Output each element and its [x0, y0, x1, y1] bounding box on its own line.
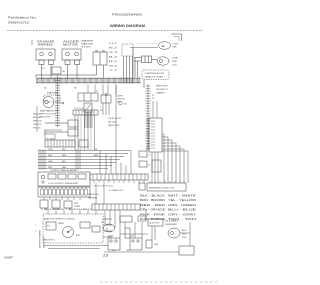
wire left border stub: [31, 40, 33, 45]
water valve motor: [168, 228, 180, 238]
svg-text:115V: 115V: [172, 65, 177, 67]
condenser fan motor: [159, 42, 171, 50]
dispenser switch 2: [130, 238, 142, 250]
svg-text:COND: COND: [173, 44, 179, 46]
svg-text:BLK - BLACK: BLK - BLACK: [140, 195, 166, 198]
light switch box: [78, 93, 98, 101]
svg-text:BLU - BLUE: BLU - BLUE: [168, 209, 197, 212]
small component boxes: [40, 200, 81, 210]
notes text: [88, 194, 99, 200]
fast freeze label: [44, 208, 93, 211]
svg-text:J2: J2: [152, 95, 155, 97]
svg-text:WHT-130: WHT-130: [33, 121, 42, 123]
svg-text:YEL-116: YEL-116: [33, 128, 42, 130]
water valve box: [36, 50, 107, 77]
wire horizontal bus hatched: [36, 79, 141, 83]
wires from bus to switches: [88, 85, 116, 96]
auger motor connector J2: [62, 41, 81, 80]
ice dispenser motor: [104, 224, 115, 232]
wire top-right corner inner: [174, 37, 180, 42]
svg-text:SEE NOTE 4: SEE NOTE 4: [88, 194, 99, 196]
svg-text:EVAP FAN MOTOR: EVAP FAN MOTOR: [40, 110, 59, 113]
svg-text:SEE NOTE 2: SEE NOTE 2: [108, 125, 121, 127]
svg-text:TIMER: TIMER: [58, 223, 64, 225]
svg-text:CABINET: CABINET: [156, 92, 165, 95]
small box above heater: [138, 216, 146, 221]
svg-text:WHT: WHT: [126, 250, 131, 252]
heater box: [148, 219, 178, 226]
svg-text:1 2 3 4 5 6 7 8 9 10 11 12: 1 2 3 4 5 6 7 8 9 10 11 12: [92, 186, 113, 188]
harness strip: [73, 110, 98, 115]
svg-text:GRY - GRAY: GRY - GRAY: [168, 213, 197, 216]
svg-text:WIRING DIAGRAM: WIRING DIAGRAM: [110, 24, 145, 28]
labels right of switches: [117, 96, 125, 104]
defrost heater vertical label: [35, 225, 46, 248]
svg-text:115V: 115V: [81, 47, 92, 49]
svg-text:1 2 3 4 5 6 7: 1 2 3 4 5 6 7: [74, 108, 85, 110]
svg-text:N: N: [149, 165, 151, 167]
svg-text:ORN • BLK 115V: ORN • BLK 115V: [40, 114, 56, 116]
svg-text:2B: 2B: [63, 71, 66, 73]
right column small box 2: [139, 161, 151, 167]
svg-text:ICE RT DOOR: ICE RT DOOR: [108, 118, 122, 120]
svg-text:TAN: TAN: [62, 166, 66, 169]
svg-text:COMPRESSOR RUN: COMPRESSOR RUN: [145, 73, 165, 75]
svg-text:N-2: N-2: [109, 48, 119, 50]
wires descending from harness strip: [75, 115, 95, 150]
svg-text:BLK-140: BLK-140: [33, 117, 42, 119]
svg-text:DEF: DEF: [74, 203, 79, 205]
main board connector P1: [146, 118, 162, 152]
svg-text:ICE: ICE: [101, 222, 105, 224]
svg-text:AUG: AUG: [182, 229, 187, 232]
wires under door switch: [103, 103, 109, 115]
svg-text:R-5: R-5: [109, 61, 119, 63]
right column small box 1: [139, 151, 151, 157]
svg-text:1C: 1C: [96, 91, 99, 93]
svg-text:PNK: PNK: [48, 167, 53, 169]
svg-text:M: M: [106, 229, 108, 231]
wire top-right corner: [172, 34, 182, 41]
junction box on bundle: [52, 67, 66, 74]
svg-text:DEFROST HEATER: DEFROST HEATER: [39, 229, 42, 248]
svg-text:2: 2: [35, 231, 36, 233]
svg-text:ORN: ORN: [48, 149, 53, 151]
svg-text:ICE MAKER: ICE MAKER: [37, 41, 54, 44]
header rule: [7, 30, 203, 32]
svg-text:TSTAT: TSTAT: [74, 205, 81, 208]
svg-text:SEE NOTE 5: SEE NOTE 5: [44, 235, 46, 248]
svg-text:. .. .: . .. .: [14, 35, 18, 37]
dispenser board small box: [139, 183, 145, 190]
dashed harness connector: [122, 44, 133, 84]
svg-text:GA97: GA97: [4, 256, 14, 260]
svg-text:WATER: WATER: [81, 40, 94, 43]
hatch under switch: [85, 112, 93, 128]
svg-text:Y-7: Y-7: [109, 70, 119, 72]
svg-text:CAPACITOR 10MFD: CAPACITOR 10MFD: [145, 76, 164, 79]
svg-text:1: 1: [35, 225, 36, 227]
svg-text:RED - RED: RED - RED: [140, 204, 165, 207]
svg-text:ORN - ORANGE: ORN - ORANGE: [140, 209, 165, 212]
svg-text:FAST FREEZE: FAST FREEZE: [44, 208, 65, 211]
svg-text:115V: 115V: [182, 237, 187, 239]
svg-text:ADAPTIVE DEFROST CONTROL: ADAPTIVE DEFROST CONTROL: [44, 218, 76, 221]
adaptive defrost control dashed box: [43, 214, 112, 243]
svg-text:2A: 2A: [44, 87, 47, 90]
svg-text:ORN-142: ORN-142: [33, 124, 42, 126]
svg-text:GRN: GRN: [48, 161, 53, 163]
bus hatch ticks: [37, 78, 140, 84]
valve labels: [182, 229, 187, 239]
wire drops to defrost box: [48, 210, 96, 214]
strip pin labels: [92, 186, 123, 193]
svg-text:HARNESS: HARNESS: [88, 197, 98, 200]
small bottom box: [146, 240, 159, 248]
thermal cutoff: [119, 101, 128, 105]
svg-text:COLD CONTROL THERMOSTAT: COLD CONTROL THERMOSTAT: [48, 182, 79, 185]
svg-text:W-6: W-6: [109, 66, 119, 68]
svg-text:FAN: FAN: [161, 45, 166, 48]
svg-text:SW 115V: SW 115V: [108, 122, 117, 124]
svg-text:L1-1: L1-1: [109, 43, 119, 45]
wire from evap fan: [36, 106, 38, 132]
svg-text:EVAP FAN: EVAP FAN: [47, 92, 58, 95]
temperature control box: [38, 172, 90, 189]
svg-text:BRN: BRN: [94, 155, 99, 157]
svg-text:MOLD HTR: MOLD HTR: [150, 223, 161, 225]
optional box: [179, 246, 194, 255]
svg-text:YEL - YELLOW: YEL - YELLOW: [168, 199, 197, 202]
svg-text:HARNESS: HARNESS: [38, 44, 54, 47]
wires descending into bottom section: [105, 210, 190, 240]
wire cross links left: [44, 130, 62, 140]
svg-text:FAN: FAN: [173, 46, 177, 49]
svg-text:RSIR: RSIR: [172, 61, 177, 63]
connector feed wires: [153, 101, 157, 118]
wire row hatch cluster: [39, 150, 80, 170]
ice maker connector J1: [36, 41, 55, 80]
condenser fan motor label line: [136, 43, 158, 45]
svg-text:5B: 5B: [74, 88, 77, 90]
terminal row side box: [79, 140, 88, 147]
svg-text:WHT: WHT: [48, 155, 53, 157]
solenoid component: [125, 228, 130, 238]
svg-text:BLU: BLU: [62, 161, 66, 163]
svg-text:SEE NOTE 2: SEE NOTE 2: [156, 86, 169, 88]
door switch box: [101, 94, 111, 104]
dispenser solenoid labels: [81, 40, 94, 49]
terminal block box: [38, 187, 90, 200]
wire bundle right vertical hatched: [146, 84, 151, 150]
svg-text:I-SW: I-SW: [130, 236, 134, 238]
svg-text:CONTROL PANEL ASSEMBLY: CONTROL PANEL ASSEMBLY: [50, 169, 78, 172]
terminal row small: [45, 140, 75, 147]
run capacitor dashed box: [142, 70, 169, 88]
compressor motor: [157, 57, 169, 65]
wires below connector: [152, 152, 158, 183]
evap fan labels: [40, 110, 59, 119]
connector note text: [152, 95, 155, 100]
thermistor box: [152, 160, 161, 172]
bottom scan artifact: [100, 281, 217, 283]
svg-text:5995422712: 5995422712: [8, 21, 30, 25]
svg-text:FRS26ZNHW0: FRS26ZNHW0: [112, 13, 143, 17]
svg-text:L1: L1: [149, 155, 151, 157]
svg-text:BLK: BLK: [62, 149, 66, 151]
svg-text:AUGER: AUGER: [63, 41, 80, 44]
dispenser board box: [147, 181, 186, 191]
svg-text:RLY: RLY: [47, 226, 51, 228]
svg-text:DISPENSER: DISPENSER: [165, 224, 177, 226]
svg-text:23: 23: [103, 254, 108, 258]
strip drop wires: [96, 183, 104, 204]
svg-text:LIGHT: LIGHT: [117, 96, 124, 98]
legend block: [140, 195, 197, 222]
header publication number: [8, 16, 37, 25]
svg-text:J1 CONNECTOR: J1 CONNECTOR: [108, 190, 123, 192]
svg-text:WHT - WHITE: WHT - WHITE: [168, 195, 197, 198]
svg-text:BLK: BLK: [112, 250, 116, 252]
wire drops into grid: [100, 151, 131, 175]
strip pin stubs: [94, 180, 144, 183]
svg-text:CAP: CAP: [154, 243, 159, 246]
dispenser switch 1: [108, 238, 120, 250]
switch labels bottom: [101, 222, 134, 252]
wire row labels: [48, 149, 99, 169]
compressor relay: [134, 56, 157, 78]
wire to condenser fan: [130, 48, 158, 78]
svg-text:C: C: [100, 107, 102, 109]
small relay box bottom: [120, 216, 132, 222]
wire long vertical: [115, 85, 117, 153]
svg-text:P3 CONN: P3 CONN: [46, 138, 55, 140]
svg-text:W-SW: W-SW: [108, 236, 113, 238]
svg-text:G-3: G-3: [109, 52, 119, 54]
svg-text:PUR - PURPLE: PUR - PURPLE: [140, 218, 165, 221]
svg-text:SWITCH ASSY: SWITCH ASSY: [68, 208, 93, 211]
relay boxes mid-left: [45, 120, 78, 136]
pin label column: [109, 43, 119, 72]
svg-text:4 3: 4 3: [42, 68, 45, 70]
svg-text:GRN - GREEN: GRN - GREEN: [168, 204, 196, 207]
svg-text:MOTOR: MOTOR: [63, 45, 79, 47]
note text block: [156, 86, 169, 95]
wire label stack left: [33, 114, 42, 130]
switch contact: [84, 103, 92, 112]
svg-text:DISPENSER CONTROL BD: DISPENSER CONTROL BD: [149, 188, 175, 190]
door switch labels: [100, 107, 122, 127]
wire rows horizontal: [38, 151, 131, 169]
wire fan-out from connector: [162, 134, 188, 183]
svg-text:COMP: COMP: [172, 58, 179, 60]
svg-text:XA: XA: [124, 103, 127, 106]
evaporator fan motor: [43, 92, 64, 108]
svg-text:Publication No.: Publication No.: [8, 16, 37, 20]
svg-text:SEE NOTE: SEE NOTE: [40, 117, 51, 119]
svg-text:MTR: MTR: [76, 235, 81, 237]
svg-text:RED-251: RED-251: [33, 114, 42, 116]
svg-text:SEE NOTE 3: SEE NOTE 3: [44, 240, 55, 242]
svg-text:ICE & WATER: ICE & WATER: [165, 220, 178, 223]
wire bundle vertical hatched: [55, 75, 60, 127]
svg-text:B-4: B-4: [109, 57, 119, 59]
svg-text:SWITCH: SWITCH: [117, 99, 125, 101]
condenser fan labels: [173, 44, 179, 49]
svg-text:VALVE: VALVE: [81, 43, 94, 46]
svg-text:RED: RED: [62, 155, 67, 157]
svg-text:P2: P2: [152, 98, 155, 100]
svg-text:MTR: MTR: [182, 234, 187, 236]
bottom bus wires: [44, 246, 108, 249]
compressor labels: [172, 58, 179, 67]
svg-text:BRN - BROWN: BRN - BROWN: [140, 199, 165, 202]
bottom connecting wires: [104, 222, 190, 252]
mid connector strip: [90, 174, 148, 180]
bus wire labels: [44, 87, 99, 93]
svg-text:GROUND TO: GROUND TO: [156, 89, 169, 91]
bottom connector strip: [92, 204, 140, 210]
